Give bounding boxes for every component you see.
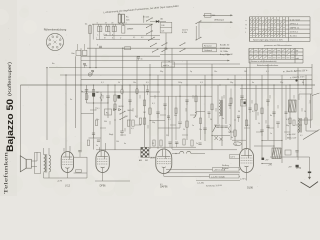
- speaker cone: [20, 156, 26, 172]
- tube socket pin labels: [48, 38, 61, 47]
- svg-text:DL96 3,1: DL96 3,1: [290, 32, 299, 34]
- svg-text:0,3: 0,3: [131, 128, 134, 130]
- wire vert x81 long: [80, 48, 82, 150]
- pot arrow dial: [143, 16, 145, 23]
- antenna T terminal: [300, 79, 307, 81]
- wire bus G (y75): [60, 74, 312, 76]
- svg-text:+0,7V: +0,7V: [57, 181, 63, 183]
- wire seg y150 V3V4: [172, 149, 237, 151]
- svg-text:Regl.: Regl.: [109, 134, 114, 136]
- output transformer frame: [35, 153, 41, 174]
- svg-text:5%: 5%: [235, 144, 238, 146]
- IF transformer T2 hatched: [289, 100, 297, 112]
- switch S3a: [195, 20, 201, 24]
- wire vert x262: [261, 75, 263, 160]
- capacitor C24: [97, 140, 100, 141]
- arrow bus B: [227, 54, 230, 56]
- wire U1 drop: [165, 33, 167, 48]
- box U1 oscillator: [160, 22, 172, 33]
- wire seg y157: [74, 156, 87, 158]
- resistor R10: [85, 94, 87, 100]
- label box left of V4: [230, 155, 240, 159]
- capacitor C21: [276, 122, 279, 124]
- switch S1c: [150, 43, 157, 47]
- tube socket center mark: [54, 41, 57, 44]
- resistor R30 horizontal: [76, 170, 82, 172]
- capacitor C23: [92, 133, 95, 134]
- voltage table grid: [250, 17, 311, 42]
- capacitor C4 on bus A: [99, 46, 102, 47]
- right col res d: [289, 118, 291, 124]
- svg-text:0,3: 0,3: [286, 119, 289, 121]
- svg-text:100: 100: [212, 15, 215, 17]
- svg-text:a: a: [246, 20, 247, 22]
- wire vert x130: [129, 85, 131, 134]
- wire vert x218: [217, 85, 219, 124]
- svg-text:5: 5: [60, 45, 61, 47]
- box U1 inner line: [160, 27, 172, 29]
- trimmer box C2: [122, 26, 125, 34]
- wire checker to V3: [145, 156, 156, 158]
- svg-text:19: 19: [105, 22, 107, 24]
- svg-text:0,3: 0,3: [162, 31, 165, 33]
- svg-text:Batterie: Batterie: [222, 167, 229, 170]
- box on dipole line: [205, 13, 212, 17]
- speaker magnet box: [26, 159, 31, 168]
- cluster above V3 c1: [168, 142, 171, 143]
- switch S1a: [146, 30, 153, 34]
- tube V1 top leads: [63, 148, 65, 152]
- svg-text:50k: 50k: [174, 115, 177, 117]
- svg-text:Telefunken: Telefunken: [5, 151, 10, 194]
- svg-text:1n: 1n: [141, 59, 143, 61]
- cluster above V3 r2: [160, 140, 162, 146]
- svg-text:UKW-Dipol: UKW-Dipol: [214, 20, 224, 22]
- svg-text:0,5 V: 0,5 V: [231, 157, 236, 159]
- resistor R12: [114, 95, 116, 101]
- svg-text:4,25: 4,25: [146, 17, 150, 19]
- resistor R19: [234, 130, 236, 136]
- wire vert x93.5: [93, 85, 95, 150]
- svg-text:DAF96 1,1: DAF96 1,1: [290, 27, 300, 30]
- coil L7: [298, 118, 299, 133]
- svg-text:DL96: DL96: [247, 187, 253, 190]
- svg-text:OA150: OA150: [127, 109, 133, 112]
- wire vert x235: [234, 75, 236, 142]
- svg-text:0,1: 0,1: [85, 24, 88, 26]
- svg-text:Bandbr. 30: Bandbr. 30: [220, 44, 229, 47]
- tube V2 top leads: [99, 147, 101, 151]
- resistor R29: [195, 96, 197, 102]
- switch S0b: [146, 24, 153, 28]
- padder pair P2 leads: [106, 24, 108, 26]
- padder pair P3 leads: [112, 24, 114, 26]
- diode D1 dark mark: [156, 20, 159, 22]
- capacitor C32: [128, 100, 131, 101]
- wire top feed vertical: [89, 24, 91, 48]
- capacitor C16: [203, 128, 206, 130]
- svg-text:DF96: DF96: [100, 185, 107, 188]
- wire ground lead: [309, 157, 311, 178]
- wire vert x165: [164, 48, 166, 148]
- wire vert x20.5 speaker feed: [20, 85, 22, 149]
- resistor R16: [143, 118, 145, 124]
- svg-text:1k: 1k: [304, 111, 306, 113]
- svg-text:OA150: OA150: [118, 105, 124, 108]
- wire Fi1 leads: [119, 23, 121, 24]
- svg-text:k: k: [246, 28, 247, 30]
- supply rail 3: [164, 175, 240, 177]
- right col cap c: [272, 112, 275, 113]
- electrolytic pair a: [121, 89, 123, 94]
- wire diode link: [150, 21, 156, 23]
- x mark a: [215, 136, 219, 140]
- dial block tiny labels: [96, 13, 143, 40]
- wire vert x144.5: [144, 85, 146, 147]
- wire vert x274: [273, 85, 275, 155]
- cluster above V3 r3: [183, 139, 185, 145]
- capacitor C20: [266, 100, 269, 102]
- svg-text:4n: 4n: [124, 143, 126, 145]
- svg-text:57: 57: [296, 54, 298, 56]
- wire tube A-B link: [74, 172, 87, 174]
- resistor R28: [211, 104, 213, 110]
- switch box Ein: [76, 50, 81, 55]
- capacitor C8: [91, 71, 94, 72]
- mid cluster vert a: [168, 96, 170, 135]
- wire vert x196: [195, 85, 197, 111]
- svg-text:U 12 / 0,53: U 12 / 0,53: [290, 19, 301, 21]
- wire vert x256: [255, 85, 257, 120]
- svg-text:8n: 8n: [270, 115, 272, 117]
- capacitor C17: [216, 126, 219, 128]
- wire vert x108: [107, 85, 109, 118]
- svg-text:Bajazzo 50: Bajazzo 50: [5, 99, 15, 152]
- wire drop x90 dial: [89, 48, 91, 67]
- coil L7 core: [299, 118, 301, 133]
- squiggle coil x101: [100, 94, 102, 101]
- wire dial sub-bus y39.5: [96, 39, 160, 41]
- wire vert x250: [249, 61, 251, 150]
- svg-text:25p: 25p: [280, 82, 283, 84]
- trimmer oval: [234, 142, 242, 146]
- padder pair P2: [106, 26, 108, 31]
- wire seg between V3 V4: [172, 153, 180, 155]
- svg-text:0,1: 0,1: [97, 108, 100, 110]
- svg-text:0,1: 0,1: [133, 37, 135, 39]
- wire vert x137: [136, 56, 138, 118]
- svg-text:6,3: 6,3: [141, 37, 143, 39]
- wire right edge hook: [312, 93, 320, 96]
- svg-text:Stellung: Stellung: [222, 164, 229, 167]
- coil L5: [219, 100, 221, 116]
- svg-text:5k: 5k: [210, 119, 212, 121]
- wire seg y103: [87, 102, 109, 104]
- mid ticks: [88, 95, 224, 132]
- wire vert x172: [171, 48, 173, 149]
- wire seg y150 mid: [96, 149, 144, 151]
- svg-text:0,1: 0,1: [160, 184, 163, 186]
- paper shading left strip: [0, 0, 17, 196]
- right cluster vert f: [285, 85, 287, 140]
- resistor R11: [92, 90, 94, 96]
- svg-text:1M: 1M: [96, 92, 99, 94]
- svg-text:0,2: 0,2: [252, 111, 255, 113]
- capacitor C28: [228, 104, 231, 105]
- mid cluster vert e: [230, 89, 232, 141]
- capacitor C13: [120, 131, 123, 133]
- switch S1b: [148, 37, 155, 41]
- cluster above V3 c2: [175, 142, 178, 143]
- capacitor C10: [85, 90, 88, 92]
- svg-text:30p: 30p: [286, 125, 289, 127]
- mid cluster vert c: [200, 85, 202, 140]
- capacitor C12: [106, 96, 109, 98]
- svg-text:16: 16: [118, 13, 120, 15]
- junction dots 2: [93, 48, 299, 147]
- wire vert x290: [289, 85, 291, 140]
- tube socket circle: [46, 33, 63, 50]
- wire vert x298: [297, 68, 299, 160]
- tube V4 DK96: [240, 149, 254, 173]
- supply label box 1: [213, 168, 240, 172]
- component box right of V4: [285, 150, 291, 155]
- svg-text:49: 49: [111, 22, 113, 24]
- svg-text:U 12: U 12: [65, 185, 71, 188]
- wire bus J right (y88.5): [240, 88, 312, 90]
- wire vert x205: [204, 75, 206, 141]
- svg-text:4: 4: [126, 22, 127, 24]
- wire seg y135: [212, 135, 230, 137]
- tube socket pins: [47, 34, 63, 50]
- wire bus C (y56.2): [81, 55, 160, 57]
- tube V1 DL96: [61, 152, 73, 173]
- svg-text:5k: 5k: [258, 123, 260, 125]
- arrow dipole lower: [230, 21, 233, 23]
- switch S4a: [119, 111, 125, 115]
- supply rail 2: [166, 172, 240, 174]
- svg-text:2k: 2k: [183, 129, 185, 131]
- wire vert x246.5: [246, 68, 248, 150]
- svg-text:(4mA): (4mA): [296, 167, 302, 170]
- wire drop x96 dial: [95, 48, 97, 67]
- dial block left frame: [92, 24, 94, 39]
- svg-text:DF96 1,2: DF96 1,2: [290, 23, 299, 25]
- wire seg y140 right: [232, 139, 246, 141]
- svg-text:2n: 2n: [294, 71, 296, 73]
- wire dial sub-bus y35.5: [104, 35, 160, 37]
- padder pair P1 leads: [98, 24, 100, 26]
- output transformer secondary coil: [49, 155, 51, 158]
- electrolytic C11: [92, 93, 95, 97]
- right col cap a: [248, 108, 251, 109]
- capacitor C26: [198, 143, 201, 144]
- supply rail 4: [196, 180, 240, 182]
- capacitor C7: [83, 64, 86, 65]
- box Fa right: [241, 100, 247, 107]
- trimmer C2 lead: [122, 24, 124, 25]
- box und Fa: [162, 62, 175, 67]
- coil L5 core: [220, 100, 222, 116]
- capacitor C22: [260, 130, 263, 132]
- svg-text:10n: 10n: [214, 71, 217, 73]
- svg-text:5k: 5k: [118, 82, 120, 84]
- svg-text:DREH: DREH: [127, 29, 134, 31]
- switch S2d: [179, 48, 185, 52]
- switch S3b: [195, 37, 201, 41]
- svg-text:o-Sp. 6,3V: o-Sp. 6,3V: [287, 134, 296, 136]
- scattered value labels: [52, 61, 306, 145]
- wire bus A (y48): [87, 47, 230, 49]
- wire dial bus: [92, 23, 152, 25]
- voltage table right column text: [290, 19, 301, 37]
- wire vert x75.5: [75, 56, 77, 128]
- wire seg right y120: [298, 119, 312, 121]
- resistor R31: [143, 100, 145, 106]
- svg-text:1: 1: [49, 38, 50, 40]
- wire transformer top lead: [48, 148, 50, 155]
- svg-text:Röhrenbestückung: Röhrenbestückung: [44, 28, 67, 32]
- svg-text:Fa: Fa: [222, 118, 224, 120]
- wire +9V tick: [262, 163, 272, 165]
- resistor R13: [127, 120, 129, 126]
- wire bus E (y64): [172, 63, 240, 65]
- +9V mark at tube D: [262, 158, 265, 160]
- svg-text:3: 3: [48, 45, 49, 47]
- voltage table slashes: [250, 18, 285, 37]
- svg-text:100p: 100p: [178, 82, 182, 84]
- wire dipole join: [198, 22, 200, 38]
- mid cluster cap f: [237, 116, 240, 117]
- wire seg right y94: [299, 93, 312, 95]
- svg-text:L: L: [98, 35, 99, 37]
- dark blob right: [244, 102, 246, 105]
- ground symbol: [301, 182, 319, 188]
- svg-text:5n: 5n: [96, 145, 98, 147]
- wire seg (y96) mid: [150, 95, 212, 97]
- arrow dipole upper: [230, 14, 233, 16]
- capacitor C29: [185, 100, 188, 101]
- wire seg y147 above V3: [150, 146, 196, 148]
- wire seg right y131: [306, 130, 318, 132]
- wire speaker leads: [31, 160, 37, 162]
- svg-text:(+1,4V / 50mA): (+1,4V / 50mA): [211, 175, 225, 178]
- svg-text:1M: 1M: [244, 71, 247, 73]
- resistor R18: [186, 121, 188, 127]
- diode D2: [114, 109, 117, 111]
- svg-text:und Fa: und Fa: [163, 65, 170, 67]
- resistor R14: [132, 120, 134, 126]
- svg-text:0,1: 0,1: [266, 71, 269, 73]
- switch S2a: [161, 42, 167, 46]
- wire bus B (y54.5): [160, 54, 228, 56]
- capacitor C30: [78, 150, 81, 152]
- right col ticks: [252, 95, 310, 124]
- wire tube C bottom: [163, 174, 165, 177]
- svg-text:0,3: 0,3: [200, 82, 203, 84]
- wire vert x306: [305, 75, 307, 131]
- electrolytic C11b: [117, 95, 120, 98]
- svg-text:0,2: 0,2: [135, 116, 138, 118]
- wire seg right x299 drop: [298, 94, 300, 100]
- mid cluster cap a: [167, 116, 170, 117]
- wire tube D bottom: [246, 173, 248, 181]
- capacitor C33: [295, 151, 298, 152]
- wire dipole lower: [199, 21, 231, 23]
- label box Ant1: [203, 44, 217, 47]
- svg-text:6: 6: [97, 22, 98, 24]
- capacitor C18: [240, 96, 243, 98]
- padder pair P1: [98, 26, 100, 31]
- wire seg y113 left: [81, 113, 94, 115]
- wire vert x212: [211, 64, 213, 150]
- svg-text:5p: 5p: [190, 71, 192, 73]
- switch S0a: [146, 17, 153, 21]
- wire transformer bottom leads: [43, 173, 45, 179]
- svg-text:4: 4: [97, 45, 98, 47]
- wire bus D (y60.5): [81, 60, 228, 62]
- IF transformer Fi1 twin boxes: [118, 14, 121, 23]
- resistor R17: [149, 108, 151, 114]
- wire vert x187: [186, 61, 188, 141]
- spring symbol: [229, 124, 231, 133]
- supply rail 1: [166, 168, 240, 170]
- svg-text:0,3 A: 0,3 A: [182, 31, 187, 34]
- right col cap e: [266, 126, 269, 127]
- switch S1d: [152, 49, 158, 53]
- bandswitch checker block: [141, 147, 149, 157]
- wire seg y112 far mid: [196, 111, 205, 113]
- mid cluster cap d: [208, 112, 211, 113]
- output transformer primary coil: [44, 155, 46, 173]
- svg-text:1n: 1n: [192, 125, 194, 127]
- svg-text:Su 25,5: Su 25,5: [290, 36, 298, 38]
- svg-text:30k: 30k: [104, 121, 107, 123]
- box Fa2: [105, 109, 112, 115]
- svg-text:0,1: 0,1: [101, 82, 104, 84]
- wire vert x282: [281, 75, 283, 163]
- wire Ein drops: [77, 44, 79, 50]
- svg-text:30: 30: [238, 111, 240, 113]
- arrow bus D: [227, 60, 230, 62]
- cluster above V3 r1: [153, 140, 155, 146]
- switch S4b: [119, 116, 125, 120]
- wire vert x86.5: [86, 85, 88, 103]
- wire bus F (y67.6): [49, 67, 312, 69]
- right cluster cap g: [285, 112, 288, 113]
- mid cluster vert b: [175, 96, 177, 140]
- wire vert x158: [157, 75, 159, 149]
- wire seg right y140: [262, 140, 282, 142]
- wire seg y138 left: [89, 137, 102, 139]
- diode D3: [119, 109, 122, 111]
- capacitor C15: [178, 122, 181, 124]
- switch S2c: [179, 42, 185, 46]
- output transformer core: [45, 154, 47, 173]
- svg-text:Fern-Ost: Fern-Ost: [204, 45, 212, 48]
- svg-text:10k: 10k: [116, 141, 119, 143]
- svg-text:(+ 9V ): (+ 9V ): [240, 179, 246, 181]
- label box Ant2: [203, 48, 217, 51]
- svg-text:1n: 1n: [270, 133, 272, 135]
- svg-text:Ströme in mA (Batteriebetrieb: Ströme in mA (Batteriebetrieb): [251, 60, 277, 63]
- svg-text:+9V: +9V: [268, 165, 272, 167]
- svg-text:2n: 2n: [196, 143, 198, 145]
- svg-text:50p: 50p: [152, 122, 155, 124]
- resistor R21: [305, 118, 307, 124]
- loop bumps between V3 V4: [180, 151, 184, 153]
- resistor R24: [87, 140, 89, 146]
